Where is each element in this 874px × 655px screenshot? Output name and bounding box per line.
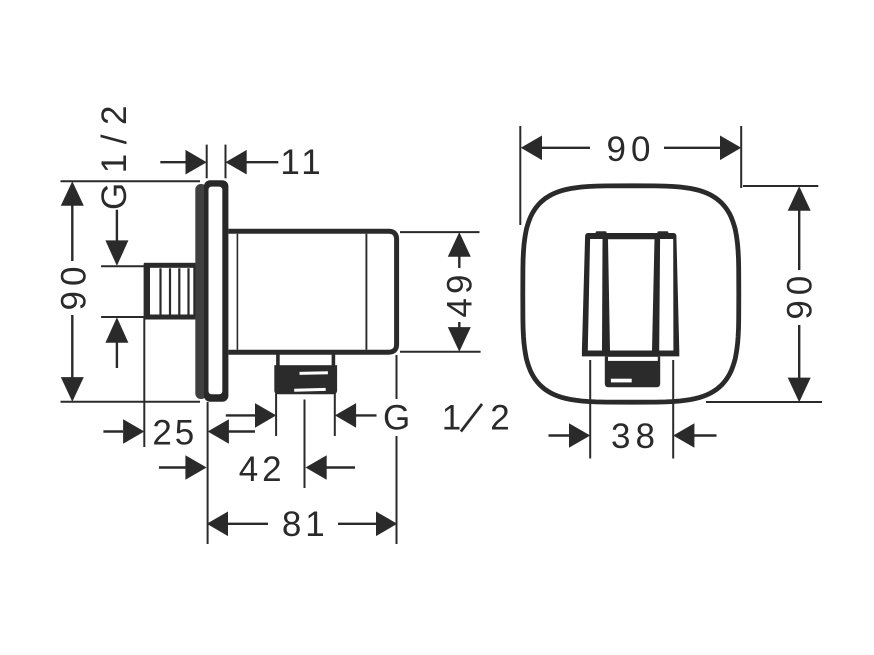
label G 1/2 (outlet thread) — [226, 394, 510, 489]
svg-text:G: G — [383, 399, 410, 438]
svg-text:38: 38 — [611, 417, 660, 456]
dimension 90 (right side, right view) — [706, 186, 822, 402]
label G1/2 (wall thread, rotated) — [95, 96, 146, 368]
svg-text:2: 2 — [490, 399, 509, 438]
bottom outlet thread G1/2 (side view) — [274, 354, 337, 395]
body depth extension line — [396, 355, 398, 544]
svg-text:90: 90 — [607, 130, 656, 169]
flange (escutcheon, side view) — [195, 180, 228, 402]
main body (side view) — [229, 231, 397, 352]
svg-text:1: 1 — [442, 399, 461, 438]
holder bracket (front view) — [582, 231, 679, 356]
svg-text:81: 81 — [282, 505, 329, 544]
wall-thread connector G1/2 (side view, hatched) — [147, 264, 196, 319]
dimension 25 — [103, 317, 255, 453]
outlet thread (front view) — [605, 356, 660, 387]
dimension 49 — [400, 232, 481, 352]
svg-text:49: 49 — [441, 271, 480, 318]
svg-text:42: 42 — [239, 450, 286, 489]
dimension 81 — [207, 505, 397, 544]
svg-text:90: 90 — [781, 271, 820, 320]
squircle face plate (front view) — [523, 186, 739, 402]
svg-text:90: 90 — [55, 262, 94, 311]
dimension 42 — [159, 402, 355, 544]
dimension 90 (flange diameter, left) — [55, 181, 201, 402]
svg-text:25: 25 — [152, 414, 197, 453]
svg-text:G1/2: G1/2 — [95, 96, 134, 210]
svg-text:11: 11 — [280, 143, 324, 182]
dimension 90 (top, right view) — [520, 126, 741, 225]
dimension 11 (flange depth) — [160, 143, 324, 182]
dimension 38 — [549, 360, 717, 459]
